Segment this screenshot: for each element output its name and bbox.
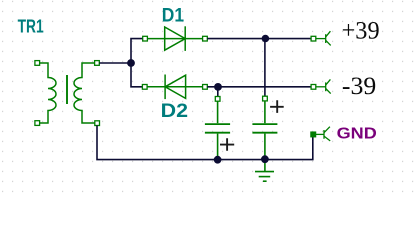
svg-text:GND: GND <box>337 125 377 142</box>
capacitor C2 polarity plus <box>270 100 284 113</box>
diode D2 <box>147 75 203 100</box>
capacitor C1 polarity plus <box>220 138 234 151</box>
transformer TR1 pin terminal top-right <box>95 61 100 66</box>
transformer TR1 primary winding <box>39 63 56 123</box>
wire down from +39 rail to capacitor C2 <box>264 39 266 97</box>
port +39 symbol <box>316 31 331 45</box>
transformer TR1 pin terminal bottom-right <box>95 121 100 126</box>
port +39 terminal <box>311 36 316 41</box>
wire junction down to capacitor C1 <box>217 87 219 97</box>
transformer TR1 pin terminal top-left <box>35 61 40 66</box>
capacitor C1 terminal <box>215 97 220 102</box>
wire from secondary top terminal to node A <box>99 62 131 64</box>
port GND symbol <box>316 127 331 141</box>
svg-text:-39: -39 <box>342 73 376 100</box>
capacitor C1 <box>205 101 230 160</box>
diode D1 pin 2 terminal <box>203 36 208 41</box>
junction C1 bottom on return wire <box>214 156 222 164</box>
diode D1 pin 1 terminal <box>143 36 148 41</box>
junction on +39 rail <box>262 35 270 43</box>
junction on -39 rail <box>214 83 222 91</box>
svg-text:+39: +39 <box>342 18 380 45</box>
port -39 terminal <box>311 85 316 90</box>
junction C2 bottom on return wire <box>261 155 269 163</box>
transformer TR1 core <box>66 75 68 104</box>
diode D1 <box>147 26 202 51</box>
transformer TR1 secondary winding <box>74 63 95 123</box>
svg-text:TR1: TR1 <box>18 17 44 37</box>
wire node A down to D2 anode side <box>131 63 143 87</box>
capacitor C2 terminal <box>263 96 268 101</box>
port GND terminal <box>311 132 316 137</box>
port -39 symbol <box>316 79 331 93</box>
diode D2 pin terminal left <box>142 85 147 90</box>
svg-text:D2: D2 <box>161 100 189 122</box>
diode D2 pin terminal right <box>203 85 208 90</box>
capacitor C2 <box>252 101 277 171</box>
wire node A up to D1 anode <box>131 39 143 63</box>
node A junction dot <box>127 59 135 67</box>
ground symbol <box>255 172 274 182</box>
bottom return wire from secondary bottom to GND port <box>97 126 313 160</box>
wire D1 cathode to +39 port (top rail) <box>207 38 311 40</box>
wire D2 to -39 port (mid rail) <box>207 86 311 88</box>
svg-text:D1: D1 <box>162 4 184 26</box>
transformer TR1 pin terminal bottom-left <box>35 121 40 126</box>
